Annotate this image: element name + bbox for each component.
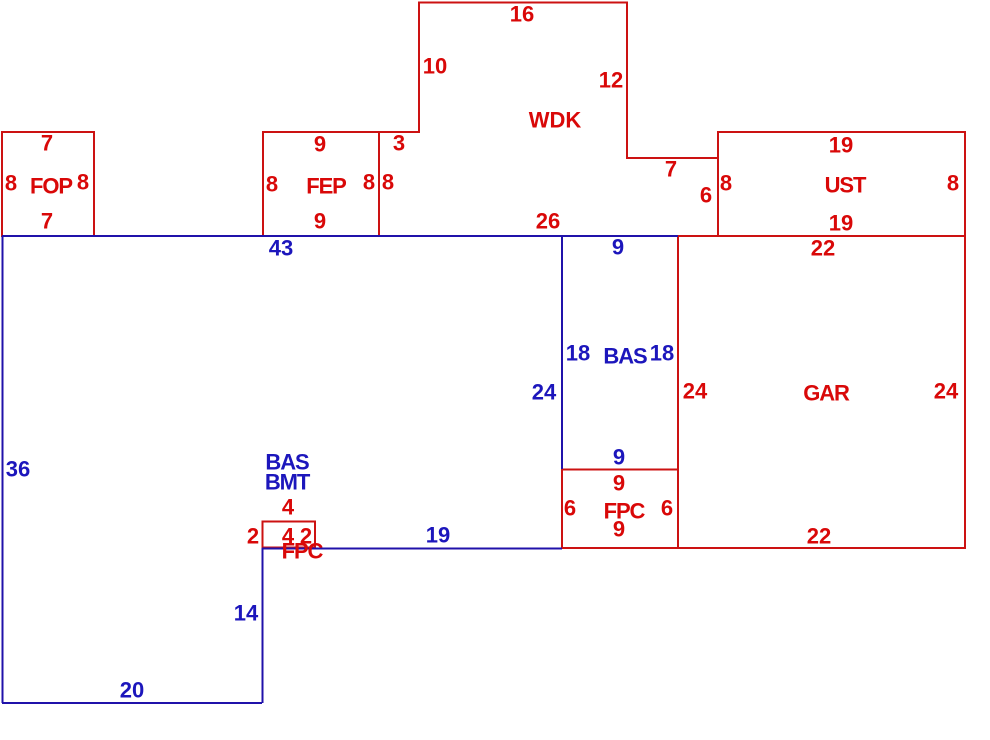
svg-text:22: 22 bbox=[807, 524, 831, 549]
house bottom wall bbox=[2, 702, 262, 704]
svg-text:18: 18 bbox=[566, 341, 590, 366]
svg-text:20: 20 bbox=[120, 678, 144, 703]
svg-text:7: 7 bbox=[41, 209, 53, 234]
svg-text:8: 8 bbox=[77, 170, 89, 195]
svg-text:9: 9 bbox=[314, 132, 326, 157]
svg-text:8: 8 bbox=[5, 171, 17, 196]
svg-text:8: 8 bbox=[947, 171, 959, 196]
svg-text:19: 19 bbox=[829, 133, 853, 158]
svg-text:24: 24 bbox=[532, 380, 557, 405]
svg-text:FEP: FEP bbox=[306, 174, 346, 199]
svg-text:6: 6 bbox=[661, 496, 673, 521]
WDK deck outline bbox=[380, 3, 717, 159]
house step vertical wall bbox=[262, 548, 264, 703]
svg-text:4: 4 bbox=[282, 495, 295, 520]
svg-text:9: 9 bbox=[612, 235, 624, 260]
svg-text:FOP: FOP bbox=[30, 174, 72, 199]
BAS left wall bbox=[561, 236, 563, 469]
svg-text:18: 18 bbox=[650, 341, 674, 366]
svg-text:8: 8 bbox=[382, 170, 394, 195]
svg-text:3: 3 bbox=[393, 131, 405, 156]
svg-text:2: 2 bbox=[247, 524, 259, 549]
svg-text:24: 24 bbox=[934, 379, 959, 404]
svg-text:UST: UST bbox=[825, 173, 867, 198]
svg-text:7: 7 bbox=[41, 131, 53, 156]
svg-text:BMT: BMT bbox=[265, 470, 311, 495]
svg-text:8: 8 bbox=[363, 170, 375, 195]
svg-text:43: 43 bbox=[269, 236, 293, 261]
svg-text:19: 19 bbox=[426, 523, 450, 548]
svg-text:9: 9 bbox=[613, 517, 625, 542]
house step horizontal wall bbox=[262, 548, 562, 550]
svg-text:WDK: WDK bbox=[529, 108, 582, 133]
house top wall bbox=[2, 235, 678, 237]
svg-text:FPC: FPC bbox=[282, 539, 324, 564]
FPC small stoop outline bbox=[263, 522, 316, 548]
svg-text:10: 10 bbox=[423, 54, 447, 79]
svg-text:9: 9 bbox=[314, 209, 326, 234]
svg-text:19: 19 bbox=[829, 211, 853, 236]
svg-text:7: 7 bbox=[665, 157, 677, 182]
house left wall bbox=[2, 236, 4, 703]
svg-text:8: 8 bbox=[266, 172, 278, 197]
svg-text:9: 9 bbox=[613, 471, 625, 496]
svg-text:8: 8 bbox=[720, 171, 732, 196]
svg-text:16: 16 bbox=[510, 2, 534, 27]
svg-text:9: 9 bbox=[613, 445, 625, 470]
svg-text:26: 26 bbox=[536, 209, 560, 234]
svg-text:12: 12 bbox=[599, 68, 623, 93]
svg-text:14: 14 bbox=[234, 601, 259, 626]
FEP porch outline bbox=[263, 132, 379, 236]
svg-text:BAS: BAS bbox=[603, 344, 647, 369]
FOP porch outline bbox=[2, 132, 94, 236]
FPC carport outline bbox=[562, 470, 678, 549]
UST storage outline bbox=[718, 132, 965, 236]
svg-text:6: 6 bbox=[564, 496, 576, 521]
svg-text:GAR: GAR bbox=[803, 381, 850, 406]
svg-text:24: 24 bbox=[683, 379, 708, 404]
GAR garage outline bbox=[678, 236, 965, 548]
svg-text:22: 22 bbox=[811, 236, 835, 261]
svg-text:36: 36 bbox=[6, 457, 30, 482]
svg-text:6: 6 bbox=[700, 183, 712, 208]
